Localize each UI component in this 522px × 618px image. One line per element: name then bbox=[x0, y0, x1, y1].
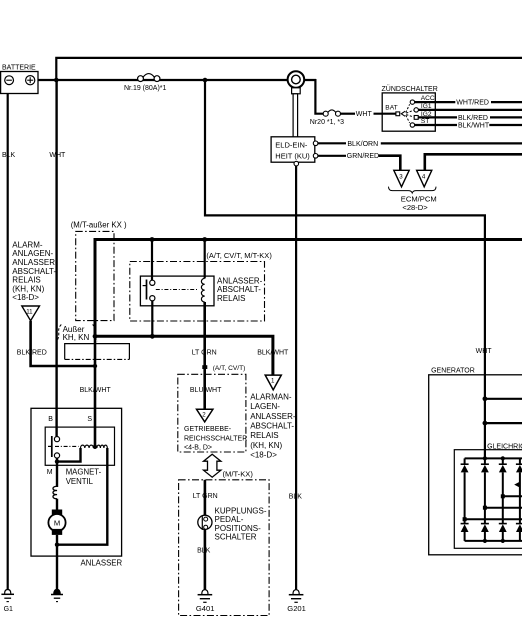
wire phase tap column 3 bbox=[503, 495, 522, 497]
node junction top bus c2 bbox=[483, 456, 487, 460]
wire M to motor with winding bbox=[56, 462, 58, 487]
diode column 1 bbox=[461, 458, 469, 541]
label GETRIEBEBEREICHSSCHALTER bbox=[184, 426, 247, 451]
wire phase tap column 2 bbox=[485, 507, 522, 509]
svg-text:(M/T-KX): (M/T-KX) bbox=[223, 470, 254, 479]
wire ST BLK/WHT bbox=[415, 124, 457, 126]
wire lower bus to triangle 1 bbox=[95, 336, 273, 375]
ECM/PCM brace and label bbox=[389, 187, 437, 212]
svg-text:MAGNET-: MAGNET- bbox=[66, 468, 102, 477]
svg-text:Nr20 *1, *3: Nr20 *1, *3 bbox=[310, 119, 344, 126]
wire BLK to G401 bbox=[204, 529, 207, 590]
wire relay contact output bbox=[151, 301, 153, 337]
svg-text:2: 2 bbox=[202, 411, 206, 418]
node junction M bbox=[55, 459, 59, 463]
svg-text:WHT/RED: WHT/RED bbox=[456, 100, 489, 107]
fuse Nr20 bbox=[310, 110, 344, 126]
svg-text:BLU/WHT: BLU/WHT bbox=[190, 387, 222, 394]
node junction battery positive bbox=[54, 78, 59, 83]
node junction fuse output bbox=[203, 78, 208, 83]
svg-text:KH, KN: KH, KN bbox=[63, 333, 90, 342]
node junction top bus c3 bbox=[501, 456, 505, 460]
svg-text:BLK: BLK bbox=[197, 547, 211, 554]
node junction bottom bus c2 bbox=[483, 539, 487, 543]
relay ANLASSER-ABSCHALT-RELAIS bbox=[140, 241, 262, 306]
svg-text:GETRIEBEBE-: GETRIEBEBE- bbox=[184, 426, 232, 433]
svg-text:M: M bbox=[54, 519, 60, 528]
ignition switch ZUENDSCHALTER bbox=[382, 85, 438, 131]
ground G201 bbox=[287, 590, 306, 613]
wire BLK/RED from triangle 11 bbox=[31, 321, 95, 366]
connector triangle 4 bbox=[417, 170, 432, 187]
svg-text:ANLASSER-: ANLASSER- bbox=[250, 412, 296, 421]
svg-text:ANLASSER: ANLASSER bbox=[81, 559, 123, 568]
wire LT GRN to clutch switch bbox=[204, 480, 207, 516]
svg-text:B: B bbox=[48, 416, 53, 423]
solenoid box MAGNETVENTIL bbox=[45, 416, 114, 486]
motor M starter bbox=[48, 510, 65, 535]
svg-text:BLK/WHT: BLK/WHT bbox=[257, 349, 289, 356]
wire WHT battery to starter B bbox=[55, 80, 57, 437]
svg-text:BAT: BAT bbox=[385, 104, 397, 111]
node junction generator tap 2 bbox=[483, 421, 488, 426]
wire IG1 bbox=[419, 109, 522, 111]
dash-dot box M/T-KX clutch switch bbox=[179, 480, 270, 616]
connector box Ausser KH KN bbox=[65, 344, 130, 360]
node junction lower bus left bbox=[93, 334, 98, 339]
svg-text:GRN/RED: GRN/RED bbox=[347, 153, 379, 160]
generator box bbox=[429, 367, 522, 555]
svg-text:ALARMAN-: ALARMAN- bbox=[250, 392, 292, 401]
svg-text:RELAIS: RELAIS bbox=[217, 294, 245, 303]
ground G401 bbox=[196, 590, 215, 613]
battery BATTERIE bbox=[1, 65, 38, 94]
connector triangle 11 bbox=[22, 306, 40, 321]
wire solenoid M branch bbox=[57, 448, 81, 462]
rectifier top bus bbox=[465, 457, 522, 459]
node junction S tap bbox=[93, 445, 97, 449]
svg-text:BLK: BLK bbox=[289, 493, 303, 500]
svg-text:BATTERIE: BATTERIE bbox=[2, 65, 36, 72]
svg-text:ABSCHALT-: ABSCHALT- bbox=[12, 267, 56, 276]
wire phase tap column 1 bbox=[465, 518, 522, 520]
svg-text:BLK/RED: BLK/RED bbox=[17, 350, 47, 357]
svg-text:RELAIS: RELAIS bbox=[250, 431, 278, 440]
wire main bus BLK/WHT horizontal bbox=[95, 240, 522, 242]
alarm relay text block left bbox=[12, 240, 58, 302]
wire BLK ELD to G201 bbox=[295, 166, 297, 590]
node junction bus at relay coil bbox=[202, 237, 207, 242]
svg-text:(A/T, CV/T): (A/T, CV/T) bbox=[213, 365, 246, 372]
wire BLK/ORN bbox=[318, 142, 346, 144]
rectifier GLEICHRICHTER box bbox=[454, 443, 522, 548]
ground G1 bbox=[1, 590, 14, 613]
svg-text:VENTIL: VENTIL bbox=[66, 477, 94, 486]
svg-text:ALARM-: ALARM- bbox=[12, 240, 43, 249]
svg-text:WHT: WHT bbox=[49, 152, 66, 159]
wire to ignition switch BAT bbox=[315, 79, 323, 114]
wire top rail bbox=[56, 58, 522, 80]
svg-text:4: 4 bbox=[422, 174, 426, 181]
alarm relay text block right bbox=[250, 392, 296, 459]
node junction bottom bus c3 bbox=[501, 539, 505, 543]
svg-text:ABSCHALT-: ABSCHALT- bbox=[250, 422, 294, 431]
svg-text:<18-D>: <18-D> bbox=[250, 451, 277, 460]
svg-text:BLK/WHT: BLK/WHT bbox=[458, 122, 490, 129]
node junction generator tap 1 bbox=[483, 396, 488, 401]
svg-text:ELD-EIN-: ELD-EIN- bbox=[275, 140, 308, 149]
connector triangle 3 bbox=[394, 170, 409, 187]
svg-text:(A/T, CV/T, M/T-KX): (A/T, CV/T, M/T-KX) bbox=[206, 251, 272, 260]
svg-text:G201: G201 bbox=[287, 604, 306, 613]
wire motor to ground bbox=[56, 535, 58, 590]
svg-text:11: 11 bbox=[26, 308, 33, 315]
fuse Nr.19 (80A)*1 bbox=[124, 74, 167, 92]
double arrow M/T-KX bbox=[204, 454, 221, 477]
diode column 2 bbox=[481, 458, 489, 541]
wire IG2 BLK/RED bbox=[418, 116, 457, 118]
wire BLK/WHT to starter S bbox=[94, 336, 97, 446]
connector triangle 1 bbox=[265, 375, 281, 390]
wire battery positive main feed bbox=[38, 79, 316, 81]
svg-text:REICHSSCHALTER: REICHSSCHALTER bbox=[184, 436, 247, 443]
svg-text:GENERATOR: GENERATOR bbox=[431, 367, 475, 374]
diode column 3 bbox=[499, 458, 507, 541]
svg-text:WHT: WHT bbox=[356, 111, 373, 118]
wire to ECM 4 bbox=[425, 154, 522, 170]
node junction bus at relay contact bbox=[150, 237, 155, 242]
svg-text:HEIT (KU): HEIT (KU) bbox=[275, 151, 310, 160]
wire ACC WHT/RED bbox=[415, 101, 456, 103]
dash-dot box transmission range switch bbox=[178, 374, 246, 452]
svg-text:(KH, KN): (KH, KN) bbox=[250, 441, 282, 450]
wire GRN/RED to ECM 3 bbox=[318, 155, 346, 157]
diode column 4 bbox=[516, 458, 522, 541]
wire generator tap 2 bbox=[485, 422, 522, 424]
svg-text:<18-D>: <18-D> bbox=[12, 293, 39, 302]
svg-text:ACC: ACC bbox=[421, 95, 435, 102]
wire WHT to BAT terminal bbox=[341, 113, 356, 115]
svg-text:LAGEN-: LAGEN- bbox=[250, 402, 280, 411]
svg-text:(KH, KN): (KH, KN) bbox=[12, 284, 44, 293]
node junction motor low bbox=[55, 543, 59, 547]
dash-dot box A/T CV/T M/T-KX relay bbox=[130, 251, 273, 321]
terminal ring main bbox=[288, 71, 305, 137]
diode horizontal cut at edge bbox=[514, 482, 520, 488]
label (M/T-ausser KX) dashed box bbox=[71, 220, 127, 320]
node junction relay output joins lower bus bbox=[150, 334, 155, 339]
wire generator tap 1 bbox=[485, 398, 522, 400]
solenoid coil winding bbox=[81, 445, 94, 448]
svg-text:BLK/RED: BLK/RED bbox=[458, 115, 488, 122]
svg-text:RELAIS: RELAIS bbox=[12, 276, 40, 285]
svg-text:LT GRN: LT GRN bbox=[192, 349, 217, 356]
svg-text:1: 1 bbox=[271, 378, 275, 385]
connector triangle 2 bbox=[197, 409, 213, 422]
node junction BLK/RED join bbox=[93, 364, 97, 368]
svg-text:(M/T-außer KX ): (M/T-außer KX ) bbox=[71, 220, 127, 229]
svg-text:G401: G401 bbox=[196, 604, 215, 613]
rectifier bottom bus bbox=[465, 540, 522, 542]
svg-text:3: 3 bbox=[399, 174, 403, 181]
svg-text:LT GRN: LT GRN bbox=[193, 493, 218, 500]
ELD unit ELD-EINHEIT (KU) bbox=[271, 137, 318, 166]
svg-text:BLK/WHT: BLK/WHT bbox=[80, 387, 112, 394]
svg-text:ANLAGEN-: ANLAGEN- bbox=[12, 249, 53, 258]
connector tick (A/T, CV/T) bbox=[202, 365, 207, 369]
svg-text:G1: G1 bbox=[4, 606, 13, 613]
svg-text:ANLASSER-: ANLASSER- bbox=[12, 258, 58, 267]
svg-text:WHT: WHT bbox=[476, 348, 493, 355]
starter box ANLASSER bbox=[31, 408, 122, 567]
switch KUPPLUNGSPEDALPOSITIONSSCHALTER bbox=[198, 515, 212, 530]
ground starter filled bbox=[51, 589, 63, 601]
wire BLK battery negative to G1 bbox=[7, 94, 9, 591]
svg-text:S: S bbox=[87, 416, 92, 423]
svg-text:BLK: BLK bbox=[2, 152, 16, 159]
label Ausser KH KN with dashed braces bbox=[57, 325, 98, 342]
svg-text:SCHALTER: SCHALTER bbox=[215, 532, 257, 541]
wire relay coil output LT GRN bbox=[203, 302, 206, 410]
svg-text:BLK/ORN: BLK/ORN bbox=[347, 141, 378, 148]
wire bus drop to lower bus bbox=[94, 240, 97, 337]
svg-text:Nr.19 (80A)*1: Nr.19 (80A)*1 bbox=[124, 85, 167, 92]
svg-text:<28-D>: <28-D> bbox=[402, 203, 428, 212]
svg-text:M: M bbox=[47, 469, 53, 476]
wire coil return to motor low side bbox=[57, 448, 107, 545]
svg-text:ZÜNDSCHALTER: ZÜNDSCHALTER bbox=[382, 85, 438, 93]
svg-text:<4-B, D>: <4-B, D> bbox=[184, 444, 212, 451]
wire fuse to generator WHT bbox=[205, 80, 485, 458]
